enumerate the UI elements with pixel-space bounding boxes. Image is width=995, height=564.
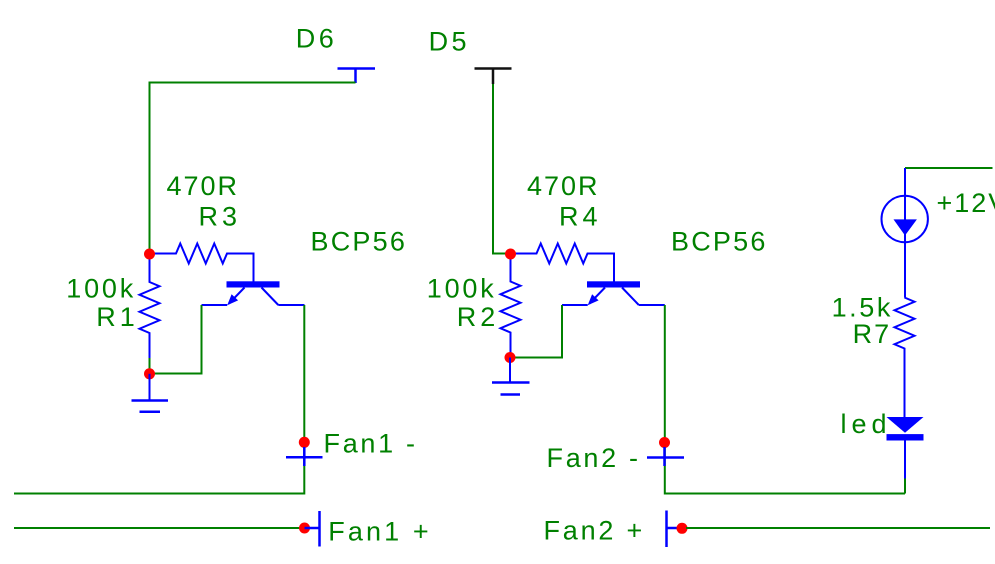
- svg-text:Fan2 -: Fan2 -: [547, 443, 641, 473]
- svg-text:R7: R7: [853, 319, 892, 349]
- wire R1 bottom to junction: [149, 358, 151, 369]
- resistor R4: [514, 244, 614, 282]
- svg-text:470R: 470R: [166, 171, 239, 201]
- svg-text:R1: R1: [96, 302, 139, 332]
- wire Fan1+ rail: [14, 527, 301, 529]
- node junction R1/ground: [144, 368, 155, 379]
- terminal Fan2-: [647, 447, 684, 466]
- svg-text:Fan2 +: Fan2 +: [544, 516, 646, 546]
- terminal Fan2+: [667, 511, 679, 548]
- svg-text:470R: 470R: [527, 171, 600, 201]
- svg-text:BCP56: BCP56: [671, 227, 768, 257]
- svg-text:D5: D5: [429, 27, 470, 57]
- ground GND1: [132, 374, 169, 412]
- wire LED to bottom rail: [904, 479, 906, 494]
- svg-text:R3: R3: [198, 202, 241, 232]
- svg-text:1.5k: 1.5k: [832, 293, 893, 323]
- svg-text:Fan1 +: Fan1 +: [328, 517, 431, 547]
- node junction R2/ground: [505, 352, 516, 363]
- svg-text:BCP56: BCP56: [311, 227, 408, 257]
- wire Fan2+ rail: [686, 527, 990, 529]
- svg-text:R4: R4: [559, 202, 602, 232]
- svg-text:+12V: +12V: [937, 188, 995, 218]
- terminal Fan1-: [286, 447, 323, 466]
- terminal Fan1+: [305, 511, 320, 547]
- resistor R3: [153, 244, 254, 282]
- transistor Q2 BCP56: [562, 281, 665, 305]
- node junction R1/R3: [144, 249, 155, 260]
- resistor R1: [140, 259, 160, 358]
- wire +12V top rail: [905, 167, 993, 169]
- node junction R2/R4: [505, 249, 516, 260]
- svg-text:D6: D6: [296, 24, 337, 54]
- wire D6 to R3 junction: [150, 83, 356, 255]
- svg-text:100k: 100k: [66, 274, 136, 304]
- wire Q2 collector to Fan2- and bottom rail to LED: [665, 305, 905, 494]
- node junction Fan2-: [659, 437, 670, 448]
- connector pin D6: [338, 69, 376, 84]
- node junction Fan1-: [299, 437, 310, 448]
- wire D5 to R4 junction: [493, 84, 506, 254]
- node junction Fan1+: [299, 523, 310, 534]
- ground GND2: [492, 358, 530, 395]
- diode LED: [887, 417, 924, 479]
- transistor Q1 BCP56: [202, 281, 305, 305]
- connector pin D5: [475, 69, 512, 85]
- svg-text:100k: 100k: [427, 274, 497, 304]
- node junction Fan2+: [677, 523, 688, 534]
- wire Q1 collector to Fan1- and bottom rail: [14, 305, 304, 494]
- current source +12V: [882, 168, 928, 298]
- svg-text:led: led: [841, 409, 892, 439]
- wire Q2 emitter to ground junction: [515, 305, 562, 358]
- resistor R7: [895, 298, 915, 419]
- resistor R2: [501, 259, 521, 355]
- svg-text:Fan1 -: Fan1 -: [324, 429, 418, 459]
- wire Q1 emitter to ground junction: [154, 305, 202, 374]
- svg-text:R2: R2: [457, 302, 500, 332]
